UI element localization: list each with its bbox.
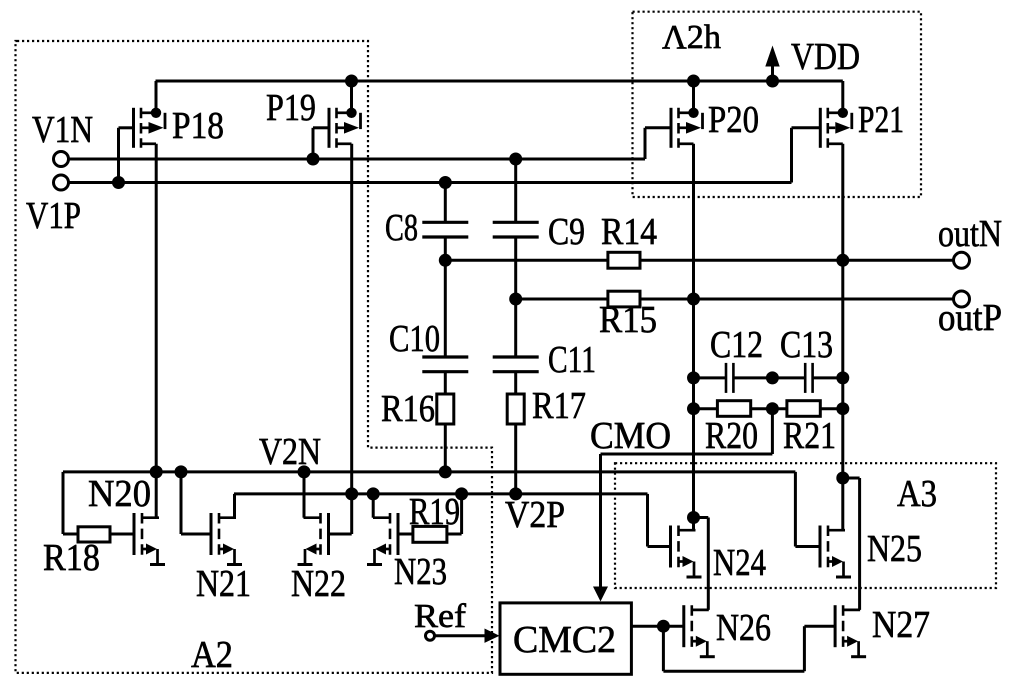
wire R14 row right to outN [640,259,954,262]
svg-text:N20: N20 [88,473,151,515]
wire P21 drain rail (to outN, C13, R21, N25) [841,144,844,530]
wire R18 to N20 gate [110,533,134,536]
node C12-C13 mid junction [766,371,779,384]
svg-text:N24: N24 [713,542,766,584]
wire P20 gate lead [645,126,671,129]
svg-text:P20: P20 [708,99,759,141]
node outP-P20 drain junction [687,293,700,306]
wire N27 gate lead [804,625,835,628]
resistor R21 [787,401,820,417]
svg-text:C10: C10 [389,318,440,360]
wire R19 right lead [447,533,462,536]
svg-text:R18: R18 [43,537,100,579]
transistor P21 [820,108,852,148]
wire P18 gate riser [117,128,120,183]
terminal outN circle [954,252,970,268]
transistor N21 [211,513,242,565]
wire R16 bottom lead [444,424,447,472]
wire Ref lead with arrow into CMC2 [435,629,500,643]
resistor R17 [507,394,524,424]
wire V1N row [69,158,645,161]
resistor R20 [717,401,750,417]
svg-text:R16: R16 [381,388,435,430]
wire V2P row [234,492,648,495]
wire bottom gate bus [663,670,804,673]
wire N21 drain riser to V2P [233,494,236,518]
transistor N22 [298,513,329,565]
transistor P18 [134,108,166,148]
svg-text:C9: C9 [548,211,585,253]
wire N22 gate lead [329,533,352,536]
wire N22 drain riser to V2N [303,472,306,518]
wire V1P row [69,181,792,184]
wire P19 source lead [350,81,353,112]
wire C12-C13 row middle [733,376,805,379]
svg-text:C11: C11 [548,339,596,381]
wire P21 gate lead [792,126,821,129]
wire R15 row right to outP [640,298,954,301]
wire C12-C13 row [694,376,727,379]
resistor R18 [78,527,110,542]
wire C11 bottom lead [514,372,517,394]
wire R15 row left [516,298,608,301]
wire P19 gate lead [313,126,329,129]
svg-text:R19: R19 [409,491,460,533]
wire N25 drain to N27 drain link [843,477,860,480]
svg-text:outP: outP [938,297,1002,339]
svg-text:Λ2h: Λ2h [662,19,721,56]
resistor R19 [413,526,447,542]
wire V1P riser to P21 gate [790,128,793,183]
node V2N-N22 drain junction [298,465,311,478]
terminal outP circle [954,291,970,307]
wire N23 drain riser to V2P [372,494,375,518]
wire CMO riser from R20-R21 midpoint [771,409,774,454]
svg-text:N25: N25 [867,528,922,570]
wire CMO drop to CMC2 with arrow [593,454,608,602]
svg-text:R20: R20 [705,415,758,457]
transistor N26 [684,605,715,657]
transistor N27 [835,605,866,657]
wire C11 top lead [514,299,517,357]
node V2P-N23 drain junction [367,487,380,500]
node C9-R15 junction [509,293,522,306]
wire P18 source lead [155,81,158,112]
capacitor C11 [493,357,539,372]
node CMC2 output junction [657,620,670,633]
wire R20 row left [694,407,718,410]
svg-text:R21: R21 [783,415,836,457]
node V2N-R16 junction [439,465,452,478]
node V1N-C9 junction [509,153,522,166]
resistor R16 [437,394,454,424]
svg-text:C8: C8 [385,207,418,249]
wire R17 bottom lead [514,424,517,494]
wire P21 source riser (rail right end) [841,81,844,112]
transistor N25 [820,526,851,578]
svg-text:N26: N26 [716,607,771,649]
wire R18 left lead [63,533,78,536]
wire C13 row right [813,376,843,379]
resistor R15 [608,291,640,307]
wire R20-R21 row middle [751,407,787,410]
svg-text:R17: R17 [532,385,586,427]
wire P20 source lead [692,81,695,112]
node V1P-P18 gate junction [112,176,125,189]
wire C9 bottom lead [514,237,517,299]
wire N23 gate lead to R19 [398,533,413,536]
svg-text:A3: A3 [897,473,937,515]
capacitor C10 [422,357,468,372]
svg-text:P18: P18 [172,105,224,147]
svg-text:N21: N21 [196,563,251,605]
dotted box A3 (bottom-right block) [615,463,996,588]
transistor N23 [367,513,398,565]
wire P18 drain / N20 drain rail [155,144,158,518]
svg-text:N27: N27 [872,604,930,646]
node R21 right junction [836,402,849,415]
node V1P-C8 junction [439,176,452,189]
wire V1N riser to P20 gate [644,128,647,159]
svg-text:V2N: V2N [259,431,321,473]
node C13 right junction [836,371,849,384]
svg-text:N23: N23 [394,551,447,593]
wire C8 top lead [444,183,447,223]
svg-text:outN: outN [938,213,1002,255]
terminal V1N (input circle) [54,152,69,167]
svg-text:R14: R14 [601,211,657,253]
svg-text:R15: R15 [599,299,657,341]
node V2P-R17 junction [509,487,522,500]
transistor N20 [134,513,165,565]
svg-text:V1P: V1P [26,195,81,237]
terminal V1P (input circle) [54,175,69,190]
wire P19 drain rail to V2P and N22 gate [350,144,353,534]
wire N26 drain riser [707,518,710,610]
wire R14 row left [445,259,608,262]
wire N25 gate lead [795,545,820,548]
wire C8 bottom lead [444,237,447,260]
wire CMO row [601,453,773,456]
node rail-VDD junction [766,75,779,88]
wire C10 bottom lead [444,372,447,394]
dotted box A2h (top-right block) [633,12,922,197]
resistor R14 [608,252,640,268]
dotted box A2 (left amplifier block) [16,41,493,673]
node N24 drain junction [687,511,700,524]
wire N24 drain to N26 drain link [694,516,709,519]
wire CMC2 output to N26 gate [631,625,683,628]
wire N25 gate riser [794,472,797,547]
transistor N24 [671,526,702,578]
svg-text:C13: C13 [780,324,833,366]
svg-text:CMO: CMO [590,415,671,457]
svg-text:P19: P19 [266,87,316,129]
capacitor C13 [805,363,812,393]
svg-text:VDD: VDD [791,36,860,78]
transistor P20 [671,108,703,148]
node V2P-P19 drain/N22 gate junction [345,487,358,500]
block CMC2 [500,603,631,674]
transistor P19 [329,108,361,148]
wire N21 gate lead [181,533,211,536]
node N25 drain junction [836,472,849,485]
wire CMC2 output drop [662,626,665,671]
svg-text:V2P: V2P [505,494,565,536]
wire P18 gate lead [119,126,134,129]
wire C10 top lead [444,260,447,357]
wire P20 drain rail (to outP, C12, R20, N24) [692,144,695,530]
svg-text:P21: P21 [858,99,904,141]
wire N24 gate riser [646,494,649,547]
capacitor C8 [422,222,468,237]
node V2N-N21 gate junction [175,465,188,478]
svg-text:V1N: V1N [32,109,93,151]
node R20-R21 mid junction [766,402,779,415]
node C12 left junction [687,371,700,384]
node rail-P19 junction [345,75,358,88]
node C8-R14 junction [439,254,452,267]
node rail-P20 junction [687,75,700,88]
terminal Ref circle [426,631,435,640]
wire N27 drain riser [858,478,861,610]
wire P19 gate riser [312,128,315,159]
wire V2N left drop to R18 [62,472,65,534]
wire top supply rail [156,80,843,83]
node R20 left junction [687,402,700,415]
node V1N-P19 gate junction [307,153,320,166]
node outN-P21 drain junction [836,254,849,267]
svg-text:Ref: Ref [414,598,467,635]
capacitor C9 [493,222,539,237]
wire N27 gate riser [803,626,806,671]
capacitor C12 [726,363,733,393]
wire C9 top lead [514,159,517,222]
svg-text:C12: C12 [710,324,763,366]
wire R19 riser to V2P [460,494,463,534]
node V2P-R19 junction [455,487,468,500]
svg-text:A2: A2 [191,634,233,676]
svg-text:CMC2: CMC2 [513,619,616,661]
wire N21 gate riser [180,472,183,534]
wire N24 gate lead [648,545,671,548]
node V2N-P18/N20 drain junction [150,465,163,478]
svg-text:N22: N22 [291,563,346,605]
power VDD arrow symbol [765,46,779,82]
wire V2N row [63,470,795,473]
wire R21 row right [820,407,843,410]
